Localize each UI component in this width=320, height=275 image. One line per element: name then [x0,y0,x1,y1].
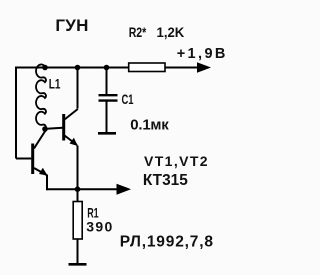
wire bottom rail [46,188,117,190]
transistor VT1 collector [34,131,46,149]
svg-text:1,2K: 1,2K [157,24,185,40]
inductor L1 [36,64,46,129]
svg-text:L1: L1 [49,76,61,92]
svg-text:КТ315: КТ315 [143,172,188,189]
node +1,9В arrow [197,62,211,72]
svg-text:VT1,VT2: VT1,VT2 [144,153,208,169]
capacitor C1 wire bottom [106,101,108,133]
svg-text:РЛ,1992,7,8: РЛ,1992,7,8 [120,234,214,251]
svg-text:R2*: R2* [129,24,147,40]
node B junction dot VT2 collector top [75,65,81,71]
transistor VT2 collector [65,109,78,120]
resistor R1 wire top [77,189,79,201]
transistor VT2 base wire [45,128,63,129]
node A junction dot L1 top [42,65,48,71]
capacitor C1 plates [99,94,118,96]
svg-text:ГУН: ГУН [55,16,88,35]
node C junction dot C1 top [104,65,110,71]
svg-text:0.1мк: 0.1мк [130,116,169,133]
transistor VT1 emitter [34,168,47,175]
ground below C1 [98,132,116,135]
resistor R1 wire bottom [77,239,79,264]
svg-text:+1,9В: +1,9В [177,46,226,62]
transistor VT2 emitter [65,136,78,146]
wire left frame vertical [15,67,17,159]
wire top rail [16,67,198,69]
ground below R1 [69,263,87,266]
output arrow [117,184,132,195]
capacitor C1 wire top [106,68,108,95]
svg-text:C1: C1 [122,91,134,107]
transistor VT1 base bar [31,144,34,175]
node E junction dot emitter/R1 [75,186,81,192]
resistor R2 body [129,63,165,72]
resistor R1 body [73,202,82,240]
transistor VT2 base bar [62,114,65,141]
node D junction dot L1 bottom [42,126,48,132]
svg-text:390: 390 [86,219,112,235]
transistor VT1 base wire [16,158,31,160]
